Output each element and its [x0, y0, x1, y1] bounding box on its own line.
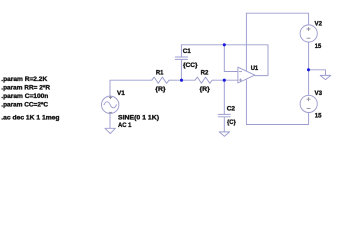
V+ rail to V2 — [246, 13, 308, 25]
svg-text:{CC}: {CC} — [183, 62, 198, 69]
svg-text:15: 15 — [315, 113, 322, 120]
svg-text:AC 1: AC 1 — [118, 122, 132, 129]
node A dot — [180, 79, 183, 82]
op-amp minus mark — [239, 71, 242, 73]
svg-text:15: 15 — [315, 43, 322, 50]
wire V1 top to R1 — [110, 80, 152, 96]
V1 bottom lead — [109, 114, 111, 129]
plus/minus marks — [109, 27, 311, 112]
V3 bottom lead — [308, 113, 310, 125]
svg-text:.param RR= 2*R: .param RR= 2*R — [1, 85, 50, 92]
V2 plus — [307, 27, 311, 31]
ground right — [320, 75, 331, 79]
svg-text:{R}: {R} — [155, 86, 166, 93]
svg-text:.param C=100n: .param C=100n — [1, 93, 48, 100]
V3 source circle — [300, 95, 317, 112]
svg-text:V2: V2 — [315, 21, 323, 28]
V1 plus — [109, 96, 112, 99]
feedback wire top rail — [181, 45, 268, 76]
svg-text:C1: C1 — [183, 48, 191, 55]
V2 minus — [307, 37, 311, 39]
node top rail dot — [223, 43, 226, 46]
wire to right ground — [309, 70, 326, 76]
op-amp power pin top — [245, 13, 247, 71]
svg-text:U1: U1 — [251, 65, 259, 72]
svg-text:C2: C2 — [227, 106, 236, 113]
capacitor C1 — [175, 45, 187, 80]
V1 source circle — [102, 96, 119, 113]
wire R2 to op-amp in+ — [214, 79, 238, 81]
op-amp plus mark — [239, 79, 242, 82]
wire R1 to R2 — [170, 79, 195, 81]
node V2-V3 dot — [307, 68, 310, 71]
svg-text:V1: V1 — [117, 90, 125, 97]
V2 bottom lead — [308, 42, 310, 95]
wire node B down to C2 — [223, 80, 225, 114]
op-amp U1 triangle — [238, 67, 255, 83]
V2 source circle — [300, 25, 317, 42]
op-amp power pin bottom — [245, 79, 247, 124]
wire in- from top rail — [224, 45, 238, 72]
svg-text:V3: V3 — [315, 90, 323, 97]
resistor R1 — [152, 77, 171, 83]
svg-text:.ac dec 1K 1 1meg: .ac dec 1K 1 1meg — [1, 115, 59, 122]
svg-text:.param CC=2*C: .param CC=2*C — [1, 101, 48, 108]
svg-text:SINE(0 1 1K): SINE(0 1 1K) — [118, 114, 159, 121]
svg-text:R1: R1 — [156, 69, 164, 76]
capacitor C2 — [218, 114, 230, 131]
V3 plus — [307, 97, 311, 101]
V1 sine wave — [104, 102, 116, 108]
ground below C2 — [219, 132, 229, 136]
resistor R2 — [195, 77, 214, 83]
V3 minus — [307, 108, 311, 110]
svg-text:{C}: {C} — [227, 119, 236, 126]
ground below V1 — [105, 128, 115, 133]
junction dots — [180, 43, 310, 81]
svg-text:{R}: {R} — [200, 86, 211, 93]
svg-text:.param R=2.2K: .param R=2.2K — [1, 76, 47, 83]
svg-text:R2: R2 — [201, 70, 209, 77]
V- rail — [246, 124, 308, 126]
V1 minus — [109, 111, 112, 113]
node B dot — [223, 79, 226, 82]
